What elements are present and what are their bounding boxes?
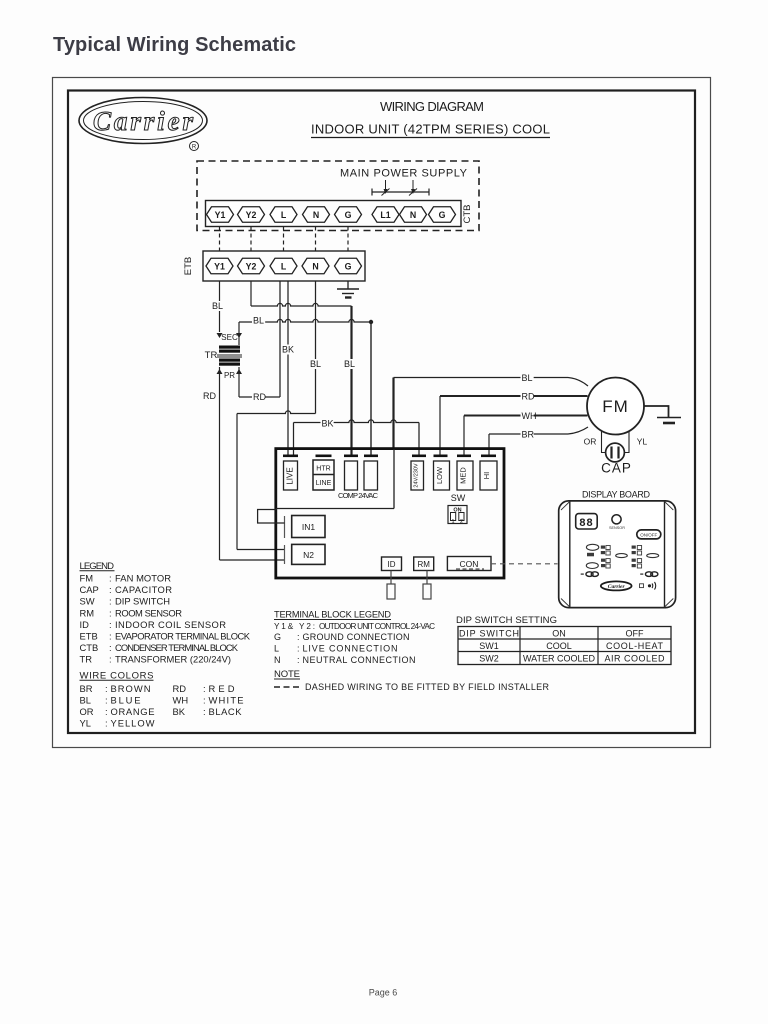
svg-text:LIVE CONNECTION: LIVE CONNECTION: [303, 644, 398, 654]
svg-text:CON: CON: [460, 559, 479, 569]
svg-text::: :: [203, 695, 206, 706]
svg-text:ON/OFF: ON/OFF: [640, 533, 657, 538]
svg-text:N: N: [312, 262, 318, 272]
svg-text::: :: [105, 683, 108, 694]
svg-text::: :: [105, 706, 108, 717]
svg-text:WH: WH: [173, 695, 189, 706]
svg-text:LOW: LOW: [435, 466, 444, 484]
svg-text::: :: [297, 655, 300, 665]
svg-text:OR: OR: [80, 706, 94, 717]
svg-text:INDOOR COIL SENSOR: INDOOR COIL SENSOR: [115, 619, 226, 630]
svg-text:RD: RD: [253, 392, 266, 402]
svg-text:COMP 24VAC: COMP 24VAC: [338, 491, 379, 500]
svg-text:L: L: [274, 644, 279, 654]
svg-text:BL: BL: [253, 316, 264, 326]
svg-text:CTB: CTB: [80, 642, 99, 653]
svg-text:DIP SWITCH SETTING: DIP SWITCH SETTING: [456, 615, 557, 626]
svg-text:EVAPORATOR TERMINAL BLOCK: EVAPORATOR TERMINAL BLOCK: [115, 631, 251, 642]
svg-text:SENSOR: SENSOR: [609, 526, 625, 530]
svg-text:BL: BL: [212, 301, 223, 311]
svg-text:OFF: OFF: [626, 629, 644, 639]
svg-text:RD: RD: [522, 392, 535, 402]
svg-text:Y2: Y2: [246, 210, 257, 220]
svg-text:SW: SW: [80, 596, 95, 607]
svg-text:NEUTRAL CONNECTION: NEUTRAL CONNECTION: [303, 655, 416, 665]
svg-text::: :: [109, 619, 112, 630]
svg-text:Y1: Y1: [215, 210, 226, 220]
svg-text:DIP SWITCH: DIP SWITCH: [459, 629, 519, 639]
svg-text:HI: HI: [482, 472, 491, 480]
svg-text:Carrier: Carrier: [93, 106, 193, 136]
svg-text::: :: [109, 573, 112, 584]
svg-text:L1: L1: [380, 210, 390, 220]
svg-text:DIP SWITCH: DIP SWITCH: [115, 596, 170, 607]
svg-text:SEC: SEC: [221, 333, 238, 342]
svg-text:TR: TR: [205, 350, 218, 361]
svg-text:RM: RM: [417, 560, 430, 569]
svg-text:BROWN: BROWN: [111, 683, 151, 694]
svg-text:FM: FM: [602, 397, 629, 416]
svg-text:RD: RD: [203, 391, 216, 401]
svg-text:BK: BK: [173, 706, 186, 717]
svg-text:Carrier: Carrier: [608, 584, 626, 590]
svg-text:OUTDOOR UNIT CONTROL 24-VAC: OUTDOOR UNIT CONTROL 24-VAC: [319, 622, 435, 631]
svg-text:YL: YL: [637, 437, 648, 447]
svg-text::: :: [109, 584, 112, 595]
svg-text:ETB: ETB: [183, 257, 194, 275]
svg-text:SW1: SW1: [479, 641, 499, 651]
svg-text:AIR COOLED: AIR COOLED: [605, 654, 666, 664]
svg-text:N: N: [313, 210, 319, 220]
svg-text:BL: BL: [80, 695, 91, 706]
svg-text:Y2: Y2: [246, 262, 257, 272]
svg-text:CTB: CTB: [462, 205, 473, 224]
svg-text::: :: [109, 654, 112, 665]
svg-text:G: G: [439, 210, 446, 220]
svg-text:BLUE: BLUE: [111, 695, 141, 706]
svg-text:L: L: [281, 262, 287, 272]
svg-text::: :: [297, 644, 300, 654]
svg-text:PR: PR: [224, 371, 235, 380]
svg-text:BL: BL: [522, 373, 533, 383]
svg-text:GROUND CONNECTION: GROUND CONNECTION: [303, 632, 410, 642]
svg-text:ETB: ETB: [80, 631, 98, 642]
svg-text::: :: [105, 695, 108, 706]
svg-text:CAP: CAP: [601, 461, 632, 476]
svg-text:TR: TR: [80, 654, 93, 665]
svg-text:YL: YL: [80, 718, 91, 729]
svg-text:FAN MOTOR: FAN MOTOR: [115, 573, 171, 584]
svg-text:RED: RED: [209, 683, 235, 694]
svg-text::: :: [109, 607, 112, 618]
svg-text:TRANSFORMER (220/24V): TRANSFORMER (220/24V): [115, 654, 231, 665]
svg-text:YELLOW: YELLOW: [111, 718, 155, 729]
svg-text:Y1: Y1: [214, 262, 225, 272]
svg-text:IN1: IN1: [302, 522, 316, 532]
svg-text:G: G: [345, 262, 352, 272]
svg-text::: :: [109, 642, 112, 653]
svg-text:COOL-HEAT: COOL-HEAT: [606, 641, 664, 651]
svg-text:RD: RD: [173, 683, 187, 694]
svg-text:R: R: [192, 145, 197, 151]
svg-text:1: 1: [451, 519, 454, 525]
svg-text:ID: ID: [388, 560, 396, 569]
svg-text:N2: N2: [303, 550, 314, 560]
svg-text:WIRING DIAGRAM: WIRING DIAGRAM: [380, 99, 484, 114]
svg-text::: :: [203, 683, 206, 694]
svg-text:MED: MED: [459, 467, 468, 484]
svg-text:WH: WH: [522, 411, 537, 421]
svg-text::: :: [105, 718, 108, 729]
svg-text:ORANGE: ORANGE: [111, 706, 155, 717]
svg-text:BL: BL: [310, 359, 321, 369]
svg-text:RM: RM: [80, 607, 95, 618]
svg-text:TERMINAL BLOCK LEGEND: TERMINAL BLOCK LEGEND: [274, 610, 391, 620]
svg-text:COOL: COOL: [546, 641, 572, 651]
svg-text::: :: [203, 706, 206, 717]
svg-text:SW2: SW2: [479, 654, 499, 664]
svg-text:L: L: [281, 210, 287, 220]
svg-text:Typical Wiring Schematic: Typical Wiring Schematic: [53, 34, 296, 56]
svg-text:CONDENSER TERMINAL BLOCK: CONDENSER TERMINAL BLOCK: [115, 642, 239, 653]
svg-text:88: 88: [579, 517, 593, 529]
svg-text:BR: BR: [522, 430, 535, 440]
svg-text:INDOOR UNIT (42TPM SERIES) COO: INDOOR UNIT (42TPM SERIES) COOL: [311, 122, 550, 137]
svg-text:G: G: [274, 632, 281, 642]
svg-text:BLACK: BLACK: [209, 706, 243, 717]
svg-text:N: N: [410, 210, 416, 220]
svg-text:HTR: HTR: [316, 466, 330, 473]
svg-text:ID: ID: [80, 619, 90, 630]
svg-text:BK: BK: [322, 419, 334, 429]
svg-text:MAIN POWER SUPPLY: MAIN POWER SUPPLY: [340, 168, 468, 180]
svg-text:BR: BR: [80, 683, 93, 694]
svg-text:Page 6: Page 6: [369, 988, 398, 998]
svg-text::: :: [297, 632, 300, 642]
svg-text::: :: [109, 631, 112, 642]
svg-text:LINE: LINE: [316, 480, 332, 487]
svg-text:DISPLAY BOARD: DISPLAY BOARD: [582, 490, 651, 500]
svg-text:FM: FM: [80, 573, 94, 584]
svg-text::: :: [109, 596, 112, 607]
svg-text:SW: SW: [451, 493, 466, 503]
svg-text:WATER COOLED: WATER COOLED: [523, 654, 596, 664]
svg-text:2: 2: [460, 519, 463, 525]
svg-text:CAPACITOR: CAPACITOR: [115, 584, 172, 595]
svg-text:WHITE: WHITE: [209, 695, 244, 706]
svg-text:LIVE: LIVE: [286, 467, 295, 484]
svg-text:BK: BK: [282, 345, 294, 355]
svg-text:NOTE: NOTE: [274, 669, 300, 680]
svg-text:24V/230V: 24V/230V: [414, 463, 420, 487]
svg-text:N: N: [274, 655, 281, 665]
svg-text:BL: BL: [344, 359, 355, 369]
svg-text:ON: ON: [552, 629, 566, 639]
svg-text:ROOM SENSOR: ROOM SENSOR: [115, 607, 182, 618]
svg-text:CAP: CAP: [80, 584, 99, 595]
svg-text:G: G: [345, 210, 352, 220]
svg-text:OR: OR: [584, 437, 597, 447]
svg-text:DASHED WIRING TO BE FITTED BY: DASHED WIRING TO BE FITTED BY FIELD INST…: [305, 682, 550, 692]
